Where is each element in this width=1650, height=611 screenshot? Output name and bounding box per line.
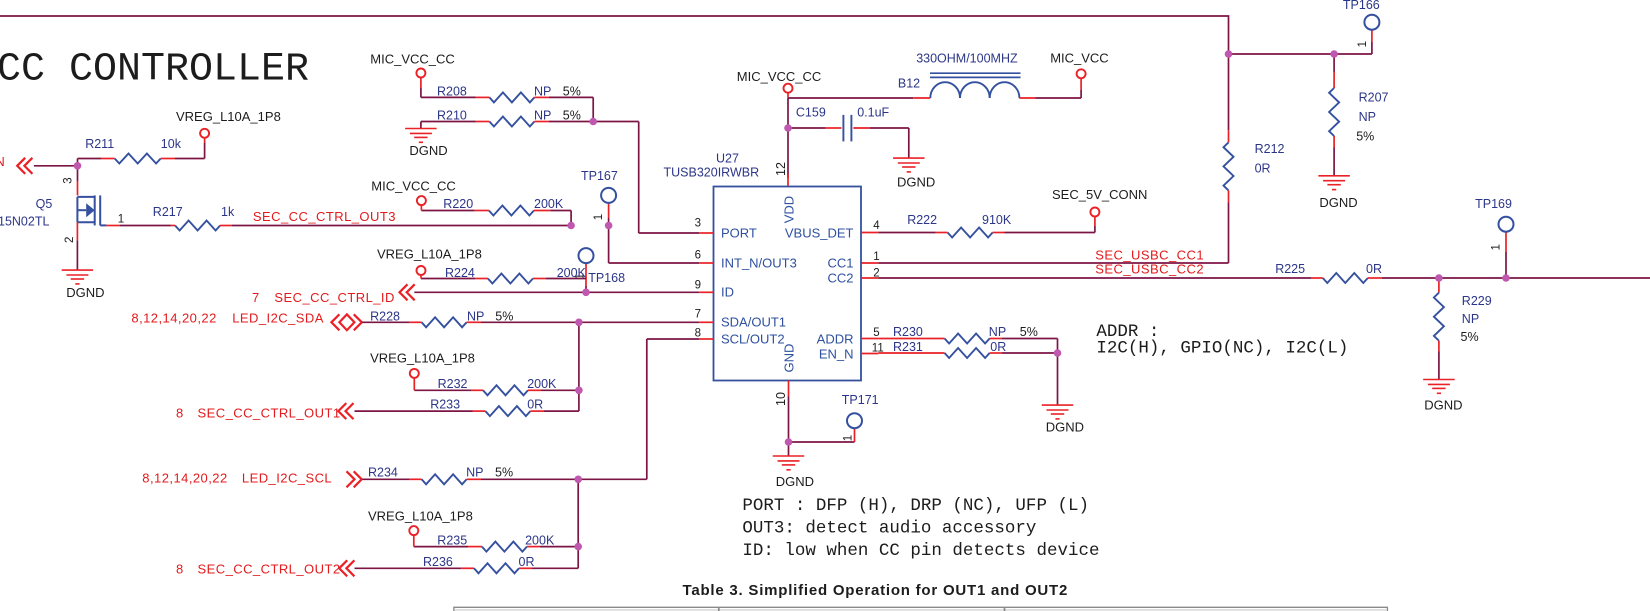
svg-text:TP167: TP167 xyxy=(581,169,618,183)
svg-text:LED_I2C_SCL: LED_I2C_SCL xyxy=(242,470,332,485)
wire SCL to IC pin 8 xyxy=(578,339,699,479)
wire SEC_CC_CTRL_ID to IC pin 9 xyxy=(414,291,699,293)
svg-text:VREG_L10A_1P8: VREG_L10A_1P8 xyxy=(370,350,475,365)
svg-text:R220: R220 xyxy=(443,197,473,211)
svg-text:ADDR: ADDR xyxy=(817,331,854,346)
svg-text:1: 1 xyxy=(1491,244,1503,250)
ground DGND under C159 xyxy=(893,158,935,189)
svg-text:EN_N: EN_N xyxy=(819,346,854,361)
power port MIC_VCC_CC (R208) xyxy=(370,51,455,97)
power port MIC_VCC_CC (top of IC) xyxy=(737,69,822,93)
svg-text:MIC_VCC_CC: MIC_VCC_CC xyxy=(370,51,455,66)
power port MIC_VCC_CC (R220) xyxy=(371,178,456,210)
svg-text:1: 1 xyxy=(1357,41,1369,47)
wire SDA node down to R232/R233 xyxy=(578,322,580,390)
power port VREG_L10A_1P8 (R224) xyxy=(377,247,482,279)
power port VREG_L10A_1P8 (R232) xyxy=(370,350,475,390)
svg-text:ID: ID xyxy=(721,285,734,300)
svg-text:R225: R225 xyxy=(1275,262,1305,276)
svg-text:SEC_5V_CONN: SEC_5V_CONN xyxy=(1052,187,1147,202)
svg-text:R222: R222 xyxy=(907,213,937,227)
svg-text:DGND: DGND xyxy=(409,143,447,158)
svg-text:10k: 10k xyxy=(161,137,182,151)
pin stub IC pin 8 xyxy=(699,338,713,340)
resistor R231 0R xyxy=(878,340,1057,358)
wire OUT3 node to IC pin 6 xyxy=(609,226,700,264)
pin stub IC pin 5 xyxy=(861,338,878,340)
node junction TP169 on CC2 xyxy=(1502,274,1510,282)
label net SEC_CC_CTRL_OUT1 xyxy=(176,405,341,420)
svg-text:R236: R236 xyxy=(423,555,453,569)
svg-text:200K: 200K xyxy=(534,197,564,211)
svg-text:SEC_USBC_CC2: SEC_USBC_CC2 xyxy=(1095,262,1204,277)
svg-text:CC2: CC2 xyxy=(827,271,853,286)
svg-text:330OHM/100MHZ: 330OHM/100MHZ xyxy=(916,51,1018,65)
node junction R232/R233 xyxy=(575,387,583,395)
resistor R211 10k xyxy=(78,137,205,164)
svg-text:8: 8 xyxy=(176,405,184,420)
ferrite bead B12 330OHM/100MHZ xyxy=(898,51,1081,98)
svg-text:NP: NP xyxy=(467,309,484,323)
ground DGND under Q5 xyxy=(62,270,105,300)
svg-text:N: N xyxy=(0,154,5,169)
power port VREG_L10A_1P8 (R211) xyxy=(176,109,281,159)
svg-text:1: 1 xyxy=(118,214,124,226)
testpoint TP168 xyxy=(575,248,626,292)
svg-text:MIC_VCC: MIC_VCC xyxy=(1050,50,1109,65)
testpoint TP166 xyxy=(1343,0,1380,54)
svg-text:Q5: Q5 xyxy=(36,197,53,211)
svg-text:12: 12 xyxy=(774,162,788,176)
table border top xyxy=(453,606,1388,608)
note PORT/OUT3/ID text block xyxy=(742,496,1099,561)
resistor R230 NP 5% xyxy=(878,325,1057,353)
resistor R224 200K xyxy=(421,266,587,284)
transistor Q5 15N02TL (N-MOSFET) xyxy=(0,195,106,228)
svg-text:LED_I2C_SDA: LED_I2C_SDA xyxy=(232,310,324,325)
svg-text:VDD: VDD xyxy=(782,196,797,223)
svg-text:R232: R232 xyxy=(438,377,468,391)
svg-text:5: 5 xyxy=(873,327,879,339)
wire GND pin to ground and TP171 xyxy=(789,381,855,457)
svg-text:TP169: TP169 xyxy=(1475,197,1512,211)
svg-text:9: 9 xyxy=(695,280,701,292)
pin stub IC pin 3 xyxy=(699,232,713,234)
svg-text:2: 2 xyxy=(64,237,76,243)
svg-text:CC1: CC1 xyxy=(827,255,853,270)
svg-text:SEC_CC_CTRL_OUT2: SEC_CC_CTRL_OUT2 xyxy=(198,561,341,576)
node junction SCL xyxy=(574,476,582,484)
op-amp U27 TUSB320IRWBR (IC body) xyxy=(714,187,862,381)
pin stub IC pin 9 xyxy=(699,291,713,293)
label net LED_I2C_SCL xyxy=(142,470,332,485)
svg-text:ID: low when CC pin detects de: ID: low when CC pin detects device xyxy=(742,541,1099,561)
svg-text:R230: R230 xyxy=(893,325,923,339)
svg-text:R224: R224 xyxy=(445,266,475,280)
wire net N to Q5 drain and R211 xyxy=(34,159,78,196)
svg-text:SEC_USBC_CC1: SEC_USBC_CC1 xyxy=(1095,248,1204,263)
svg-text:Table 3. Simplified Operation: Table 3. Simplified Operation for OUT1 a… xyxy=(683,582,1069,599)
resistor R207 NP 5% (vertical) xyxy=(1329,54,1388,176)
resistor R229 NP 5% (vertical) xyxy=(1434,278,1492,380)
svg-text:DGND: DGND xyxy=(1046,420,1084,435)
svg-text:R207: R207 xyxy=(1359,91,1389,105)
svg-text:200K: 200K xyxy=(557,266,587,280)
svg-text:0R: 0R xyxy=(1255,162,1271,176)
svg-text:5%: 5% xyxy=(495,466,513,480)
note ADDR modes text xyxy=(1096,322,1348,359)
label net LED_I2C_SDA xyxy=(131,310,323,325)
pin stub IC pin 2 xyxy=(861,277,878,279)
pin stub IC pin 7 xyxy=(699,321,713,323)
capacitor C159 0.1uF xyxy=(796,106,909,159)
node junction R229 on CC2 xyxy=(1435,274,1443,282)
svg-text:R211: R211 xyxy=(85,137,114,151)
svg-text:7: 7 xyxy=(252,290,260,305)
svg-text:DGND: DGND xyxy=(776,474,814,489)
svg-text:5%: 5% xyxy=(1461,330,1479,344)
ground DGND under R210 xyxy=(405,129,448,158)
resistor R236 0R xyxy=(355,547,579,574)
svg-text:R234: R234 xyxy=(368,466,398,480)
svg-text:VREG_L10A_1P8: VREG_L10A_1P8 xyxy=(368,509,473,524)
svg-text:SDA/OUT1: SDA/OUT1 xyxy=(721,315,786,330)
svg-text:5%: 5% xyxy=(495,309,513,323)
svg-text:PORT: PORT xyxy=(721,225,757,240)
svg-text:INT_N/OUT3: INT_N/OUT3 xyxy=(721,255,797,270)
ground DGND under R229 xyxy=(1423,380,1462,413)
svg-text:VREG_L10A_1P8: VREG_L10A_1P8 xyxy=(176,109,281,124)
svg-text:10: 10 xyxy=(774,392,788,406)
svg-text:5%: 5% xyxy=(563,84,581,98)
svg-text:NP: NP xyxy=(989,325,1006,339)
resistor R234 NP 5% xyxy=(362,466,578,485)
wire ADDR node to ground xyxy=(1057,353,1059,405)
node junction TP167/OUT3 xyxy=(605,222,613,230)
wire net SEC_USBC_CC2 (IC pin2 to right edge) xyxy=(878,277,1650,279)
resistor R208 NP 5% xyxy=(421,84,593,121)
svg-text:MIC_VCC_CC: MIC_VCC_CC xyxy=(737,69,822,84)
testpoint TP169 xyxy=(1475,197,1513,278)
svg-text:8,12,14,20,22: 8,12,14,20,22 xyxy=(142,470,227,485)
svg-text:R229: R229 xyxy=(1462,294,1492,308)
svg-text:DGND: DGND xyxy=(1424,398,1462,413)
svg-text:C159: C159 xyxy=(796,106,826,120)
ground DGND under R207 xyxy=(1318,176,1357,210)
svg-text:910K: 910K xyxy=(982,213,1012,227)
node junction C159 tap xyxy=(784,124,792,132)
svg-text:MIC_VCC_CC: MIC_VCC_CC xyxy=(371,178,456,193)
svg-text:SEC_CC_CTRL_OUT3: SEC_CC_CTRL_OUT3 xyxy=(253,209,396,224)
node junction TP168/ID xyxy=(582,289,590,297)
svg-text:5%: 5% xyxy=(1356,130,1374,144)
svg-text:0R: 0R xyxy=(527,398,543,412)
svg-text:SCL/OUT2: SCL/OUT2 xyxy=(721,331,785,346)
node junction Q5 drain xyxy=(74,162,82,170)
svg-text:SEC_CC_CTRL_OUT1: SEC_CC_CTRL_OUT1 xyxy=(198,405,341,420)
node junction ADDR/EN_N xyxy=(1054,349,1062,357)
svg-text:200K: 200K xyxy=(527,377,557,391)
svg-text:I2C(H), GPIO(NC), I2C(L): I2C(H), GPIO(NC), I2C(L) xyxy=(1096,339,1348,359)
node junction R208/R210 xyxy=(589,118,597,126)
node junction GND xyxy=(785,438,793,446)
svg-text:1: 1 xyxy=(873,251,879,263)
svg-text:DGND: DGND xyxy=(1319,195,1357,210)
svg-text:VREG_L10A_1P8: VREG_L10A_1P8 xyxy=(377,247,482,262)
svg-text:NP: NP xyxy=(466,466,483,480)
port chevron input-left net N xyxy=(17,158,25,174)
power port SEC_5V_CONN xyxy=(1052,187,1147,233)
svg-text:8: 8 xyxy=(176,561,184,576)
resistor R232 200K xyxy=(414,377,579,396)
label net SEC_CC_CTRL_ID xyxy=(252,290,395,305)
svg-text:TP171: TP171 xyxy=(842,393,879,407)
svg-text:0.1uF: 0.1uF xyxy=(857,106,889,120)
svg-text:R228: R228 xyxy=(370,309,400,323)
testpoint TP171 xyxy=(842,393,879,442)
svg-text:NP: NP xyxy=(1359,110,1376,124)
ground DGND under IC xyxy=(773,456,814,489)
wire R210 node to IC pin 3 xyxy=(593,122,699,234)
svg-text:2: 2 xyxy=(873,267,879,279)
svg-text:1: 1 xyxy=(593,214,605,220)
svg-text:NP: NP xyxy=(534,108,551,122)
wire MIC_VCC_CC to B12 and C159 and VDD xyxy=(788,93,913,187)
wire R210 left to ground xyxy=(420,122,422,129)
node junction CC1-top-R207 xyxy=(1330,50,1338,58)
svg-text:4: 4 xyxy=(873,220,880,232)
svg-text:R210: R210 xyxy=(437,108,467,122)
power port VREG_L10A_1P8 (R235) xyxy=(368,509,473,547)
power port MIC_VCC xyxy=(1050,50,1109,98)
port diamond bidir LED_I2C_SDA xyxy=(331,314,339,330)
resistor R212 0R (vertical) xyxy=(1224,54,1285,263)
svg-text:TP168: TP168 xyxy=(588,271,625,285)
table inner border xyxy=(455,609,1386,611)
svg-text:5%: 5% xyxy=(1020,325,1038,339)
port chevron input SEC_CC_CTRL_OUT1 xyxy=(338,403,346,419)
resistor R233 0R xyxy=(355,390,579,416)
resistor R222 910K xyxy=(878,213,1095,238)
pin stub IC pin 1 xyxy=(861,262,878,264)
svg-text:NP: NP xyxy=(1462,312,1479,326)
svg-text:GND: GND xyxy=(782,344,797,373)
svg-text:R235: R235 xyxy=(437,534,467,548)
svg-text:DGND: DGND xyxy=(897,175,935,190)
svg-text:PORT : DFP (H), DRP (NC), UFP: PORT : DFP (H), DRP (NC), UFP (L) xyxy=(742,496,1089,516)
svg-text:B12: B12 xyxy=(898,77,920,91)
node junction SDA xyxy=(575,319,583,327)
resistor R210 NP 5% xyxy=(421,108,593,126)
svg-text:0R: 0R xyxy=(990,340,1006,354)
pin stub IC pin 11 xyxy=(861,353,878,355)
svg-text:R217: R217 xyxy=(153,205,183,219)
svg-text:DGND: DGND xyxy=(66,285,104,300)
node junction CC1-top-left xyxy=(1225,50,1233,58)
table border verticals xyxy=(454,607,1388,611)
resistor R220 200K xyxy=(421,197,571,225)
svg-text:R208: R208 xyxy=(437,84,467,98)
svg-text:200K: 200K xyxy=(525,534,555,548)
wire SCL node down to R235/R236 xyxy=(577,479,579,546)
resistor R217 1k xyxy=(106,205,570,230)
svg-text:1k: 1k xyxy=(221,205,235,219)
svg-text:7: 7 xyxy=(695,309,701,321)
svg-text:0R: 0R xyxy=(519,555,535,569)
svg-text:U27: U27 xyxy=(716,152,739,166)
svg-text:8,12,14,20,22: 8,12,14,20,22 xyxy=(131,310,216,325)
svg-text:CC CONTROLLER: CC CONTROLLER xyxy=(0,48,309,93)
svg-text:0R: 0R xyxy=(1366,262,1382,276)
pin stub IC pin 6 xyxy=(699,262,713,264)
wire Q5 source to ground xyxy=(76,222,78,270)
port chevron output LED_I2C_SCL xyxy=(347,471,355,487)
node junction R220/OUT3 xyxy=(567,222,575,230)
node junction R235/R236 xyxy=(574,543,582,551)
svg-text:6: 6 xyxy=(695,249,701,261)
svg-text:15N02TL: 15N02TL xyxy=(0,214,49,228)
svg-text:TUSB320IRWBR: TUSB320IRWBR xyxy=(664,166,760,180)
label net SEC_CC_CTRL_OUT2 xyxy=(176,561,341,576)
wire R228 to IC pin 7 xyxy=(579,321,699,323)
port chevron input SEC_CC_CTRL_OUT2 xyxy=(339,560,347,576)
svg-text:VBUS_DET: VBUS_DET xyxy=(785,225,854,240)
testpoint TP167 xyxy=(581,169,618,226)
resistor R235 200K xyxy=(414,534,578,552)
svg-text:3: 3 xyxy=(695,217,701,229)
svg-text:R231: R231 xyxy=(893,340,923,354)
svg-text:R233: R233 xyxy=(430,398,460,412)
ground DGND under R231 xyxy=(1042,405,1084,434)
port chevron input SEC_CC_CTRL_ID xyxy=(400,284,408,300)
svg-text:5%: 5% xyxy=(563,108,581,122)
svg-text:TP166: TP166 xyxy=(1343,0,1380,12)
svg-text:1: 1 xyxy=(843,435,855,441)
svg-text:NP: NP xyxy=(534,84,551,98)
wire net SEC_USBC_CC1 (IC pin1 to R212) xyxy=(878,262,1228,264)
svg-text:OUT3: detect audio accessory: OUT3: detect audio accessory xyxy=(742,518,1036,538)
svg-text:SEC_CC_CTRL_ID: SEC_CC_CTRL_ID xyxy=(274,290,394,305)
pin stub IC pin 4 xyxy=(861,232,878,234)
svg-text:3: 3 xyxy=(63,177,75,183)
svg-text:R212: R212 xyxy=(1255,142,1285,156)
resistor R225 0R xyxy=(1275,262,1382,283)
resistor R228 NP 5% xyxy=(362,309,579,327)
svg-text:8: 8 xyxy=(695,327,701,339)
wire top net to TP166/R212 (CC1 bus across top) xyxy=(0,16,1372,54)
